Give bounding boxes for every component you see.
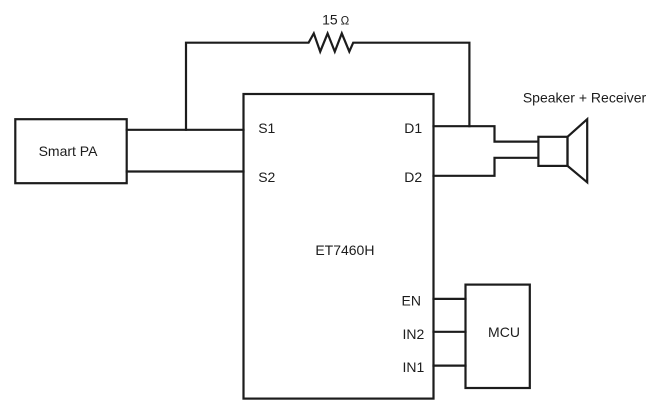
svg-text:EN: EN	[402, 293, 421, 309]
svg-text:Speaker + Receiver: Speaker + Receiver	[523, 90, 647, 106]
svg-text:Smart PA: Smart PA	[39, 143, 99, 159]
svg-text:D2: D2	[404, 169, 422, 185]
svg-text:ET7460H: ET7460H	[315, 242, 374, 258]
svg-text:S1: S1	[258, 120, 275, 136]
svg-text:IN1: IN1	[403, 359, 425, 375]
svg-text:S2: S2	[258, 169, 275, 185]
svg-text:IN2: IN2	[403, 326, 425, 342]
svg-text:MCU: MCU	[488, 324, 520, 340]
svg-text:D1: D1	[404, 120, 422, 136]
